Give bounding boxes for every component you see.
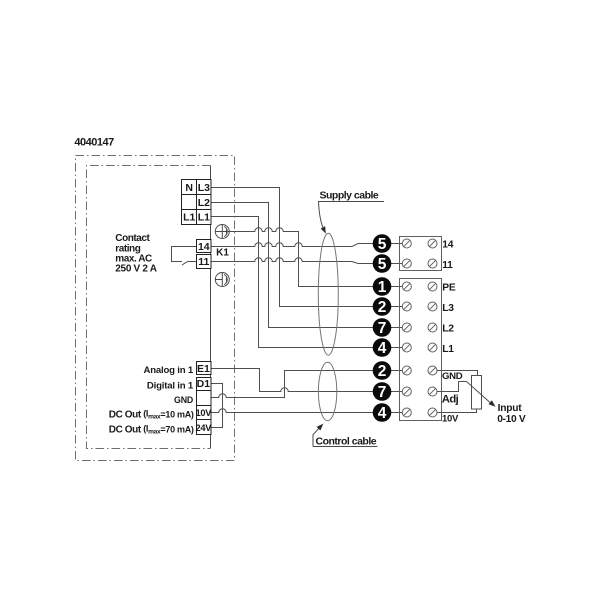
svg-text:14: 14 [198,241,210,253]
svg-text:11: 11 [198,256,209,268]
svg-text:Contact: Contact [115,233,150,244]
svg-text:PE: PE [442,283,456,294]
svg-text:Digital in 1: Digital in 1 [147,381,194,392]
svg-text:4: 4 [378,405,387,422]
svg-text:L1: L1 [198,212,210,224]
svg-text:10V: 10V [442,414,459,425]
svg-text:L3: L3 [442,303,454,314]
svg-text:Supply cable: Supply cable [320,190,379,202]
svg-text:N: N [185,182,193,194]
svg-text:L1: L1 [442,344,454,355]
svg-text:K1: K1 [216,248,229,259]
svg-text:1: 1 [378,279,387,296]
svg-text:GND: GND [174,395,193,405]
svg-text:5: 5 [378,256,387,273]
svg-text:250 V 2 A: 250 V 2 A [115,263,156,274]
svg-text:2: 2 [378,363,387,380]
svg-text:5: 5 [378,236,387,253]
svg-text:7: 7 [378,384,387,401]
svg-text:E1: E1 [197,363,210,375]
svg-text:GND: GND [442,371,463,382]
svg-text:L1: L1 [183,212,195,224]
svg-text:2: 2 [378,299,387,316]
svg-text:Control cable: Control cable [316,435,377,447]
svg-text:10V: 10V [195,408,212,418]
svg-text:4040147: 4040147 [74,137,114,149]
svg-text:4: 4 [378,340,387,357]
svg-text:L2: L2 [198,197,210,209]
svg-text:Input: Input [498,403,523,414]
svg-text:Analog in 1: Analog in 1 [143,365,193,376]
svg-text:L2: L2 [442,324,454,335]
svg-text:L3: L3 [198,182,210,194]
svg-text:0-10 V: 0-10 V [497,414,526,425]
svg-text:Adj: Adj [442,393,459,405]
svg-text:24V: 24V [195,423,212,433]
svg-text:14: 14 [442,240,453,251]
svg-text:11: 11 [442,260,453,271]
svg-text:7: 7 [378,320,387,337]
svg-text:D1: D1 [197,378,211,390]
